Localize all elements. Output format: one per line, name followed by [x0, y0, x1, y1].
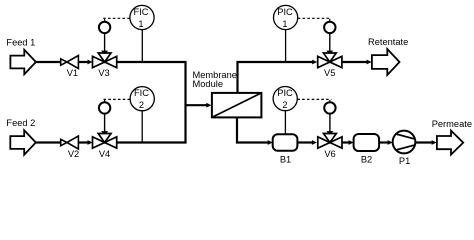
- svg-text:FIC: FIC: [134, 7, 149, 17]
- svg-text:Retentate: Retentate: [368, 37, 408, 47]
- svg-text:Feed 1: Feed 1: [6, 38, 35, 48]
- svg-text:2: 2: [139, 100, 144, 110]
- svg-text:FIC: FIC: [134, 88, 149, 98]
- svg-text:B2: B2: [361, 154, 372, 164]
- svg-text:2: 2: [282, 100, 287, 110]
- svg-text:Module: Module: [193, 79, 224, 89]
- svg-text:P1: P1: [399, 156, 410, 166]
- svg-text:1: 1: [282, 19, 287, 29]
- svg-text:V2: V2: [68, 149, 79, 159]
- svg-text:1: 1: [138, 19, 143, 29]
- svg-text:Permeate: Permeate: [432, 119, 472, 129]
- svg-text:Feed 2: Feed 2: [6, 118, 35, 128]
- svg-text:V1: V1: [67, 68, 78, 78]
- svg-text:V6: V6: [324, 149, 335, 159]
- svg-text:V4: V4: [99, 149, 110, 159]
- svg-text:B1: B1: [280, 154, 291, 164]
- svg-text:PIC: PIC: [277, 88, 293, 98]
- svg-text:PIC: PIC: [277, 7, 293, 17]
- svg-text:V5: V5: [324, 68, 335, 78]
- svg-text:V3: V3: [98, 68, 109, 78]
